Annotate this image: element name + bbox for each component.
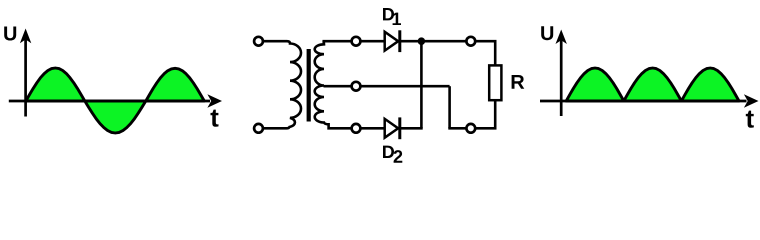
left graph vertical axis U <box>24 38 27 117</box>
wire: to bottom output circle <box>448 127 466 130</box>
transformer core bar <box>307 49 311 122</box>
wire: D1 cathode to top output <box>401 40 467 43</box>
terminal circle output bottom <box>466 124 475 133</box>
left graph horizontal axis t <box>9 100 210 103</box>
diode D1 triangle <box>385 32 399 51</box>
label U (right graph) <box>541 26 553 40</box>
label D1 letter <box>383 8 394 20</box>
input sine waveform (green) <box>26 68 205 133</box>
wire: bottom tap to diode D2 <box>362 127 385 130</box>
terminal circle secondary top tap <box>352 37 361 46</box>
secondary winding of transformer (with center tap) <box>315 41 351 128</box>
terminal circle output top <box>466 37 475 46</box>
right graph horizontal axis t <box>540 100 747 103</box>
right graph horizontal axis arrowhead <box>744 94 759 107</box>
primary winding of transformer (with lead wires) <box>264 41 301 128</box>
diode D2 cathode bar <box>398 117 401 139</box>
terminal circle bottom-left <box>254 124 263 133</box>
wire: top tap to diode D1 <box>362 40 385 43</box>
diode D1 cathode bar <box>398 30 401 52</box>
wire: junction vertical (D1/D2 common cathode) <box>420 41 423 128</box>
wire: center tap branch vertical <box>448 86 451 128</box>
label t (left graph) <box>211 110 219 127</box>
terminal circle top-left <box>254 37 263 46</box>
output waveform: rectified humps (green) <box>566 68 739 101</box>
resistor R <box>489 65 501 100</box>
wire: D2 cathode to junction vertical <box>401 127 423 130</box>
left graph vertical axis arrowhead <box>20 29 31 44</box>
junction dot <box>418 37 426 45</box>
right graph vertical axis arrowhead <box>556 30 567 45</box>
terminal circle secondary bottom tap <box>352 124 361 133</box>
terminal circle secondary center tap <box>352 82 361 91</box>
label U (left graph) <box>4 27 16 41</box>
wire: resistor to bottom output <box>476 100 495 128</box>
wire: center tap to bottom output (horizontal) <box>362 85 450 88</box>
label D1 subscript <box>393 13 401 25</box>
diode D2 triangle <box>385 119 399 138</box>
right graph vertical axis U <box>560 39 563 116</box>
label R <box>512 75 525 89</box>
label D2 subscript <box>394 150 403 163</box>
label t (right graph) <box>746 111 754 128</box>
label D2 letter <box>383 146 394 158</box>
left graph horizontal axis arrowhead <box>207 94 222 107</box>
wire: center tap of secondary <box>324 85 351 88</box>
wire: top output to resistor <box>476 41 495 65</box>
